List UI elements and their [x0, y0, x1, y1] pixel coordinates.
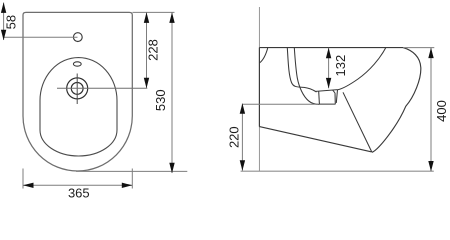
dim line 530: [171, 12, 173, 173]
extension line 58 (to faucet hole): [4, 36, 78, 38]
basin interior back wall outer line: [294, 48, 319, 105]
svg-text:530: 530: [153, 89, 168, 111]
arrow 220 top: [240, 103, 245, 114]
dim line 228: [146, 12, 148, 88]
drain inner circle: [71, 83, 83, 95]
drain trap right outer edge: [336, 90, 337, 103]
side view front crease line: [343, 92, 372, 152]
drain trap flange notch: [333, 90, 335, 93]
arrow 530 top: [169, 12, 174, 23]
arrow 365 right: [122, 183, 133, 188]
arrow 530 bottom: [169, 163, 174, 174]
svg-text:365: 365: [68, 186, 90, 200]
arrow 220 bottom: [240, 160, 245, 171]
faucet hole: [73, 33, 82, 42]
extension line 400 top (rim extension): [403, 47, 434, 49]
arrow 58 bottom: [1, 30, 6, 41]
svg-text:400: 400: [434, 100, 449, 122]
arrow 58 top: [1, 2, 6, 13]
side view top rim: [259, 47, 403, 49]
svg-text:228: 228: [146, 39, 161, 61]
basin interior back wall inner line: [287, 48, 316, 92]
extension line bottom (530): [76, 170, 187, 172]
dim line 132: [328, 48, 330, 89]
svg-text:220: 220: [227, 126, 242, 148]
dim line 220: [241, 104, 243, 171]
extension line 365 right: [131, 169, 133, 189]
arrow 400 top: [428, 48, 433, 59]
drain trap bottom edge: [319, 103, 335, 105]
extension line 220 top: [242, 103, 318, 105]
arrow 228 bottom: [144, 78, 149, 89]
drain outer circle: [67, 78, 88, 99]
svg-text:58: 58: [3, 15, 18, 29]
arrow 228 top: [144, 12, 149, 23]
bidet top-view inner basin oval: [40, 58, 117, 156]
side view underside diagonal: [259, 127, 371, 152]
drain trap left edge: [318, 92, 321, 105]
drain trap top edge: [316, 90, 338, 92]
drain centerline / extension to 228 dim: [57, 87, 147, 89]
arrow 365 left: [23, 183, 34, 188]
dim line 400: [430, 48, 432, 171]
extension line 365 left: [22, 169, 24, 189]
side view wall plane line: [258, 7, 260, 171]
arrow 132 bottom: [326, 78, 331, 89]
arrow 132 top: [326, 48, 331, 59]
extension line top (228/530): [133, 11, 175, 13]
side view back rim fillet: [260, 48, 268, 63]
svg-text:132: 132: [333, 55, 348, 77]
bidet top-view outer outline: [23, 12, 132, 171]
ground line: [241, 170, 434, 172]
overflow hole: [73, 62, 81, 66]
arrow 400 bottom: [428, 161, 433, 172]
dim line 58: [3, 3, 5, 40]
drain trap right inner edge: [334, 93, 336, 104]
dim line 365: [23, 184, 132, 186]
side view front outer profile: [372, 48, 421, 153]
drain centerline vertical: [76, 74, 78, 105]
side view back edge (wall side): [258, 48, 260, 127]
basin interior front wall line: [338, 48, 386, 90]
